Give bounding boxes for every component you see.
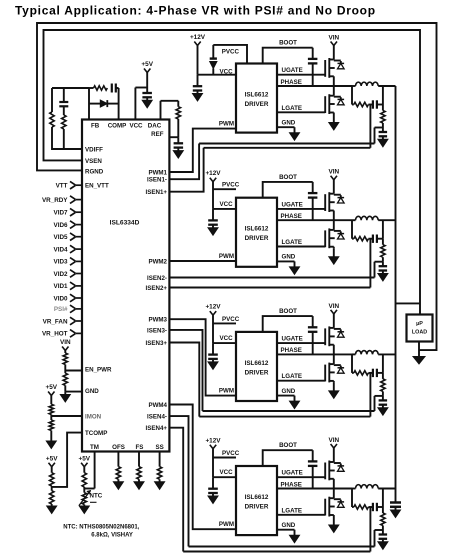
svg-text:VID6: VID6 [54, 222, 68, 229]
svg-text:+5V: +5V [79, 455, 91, 462]
svg-text:VSEN: VSEN [85, 158, 102, 165]
svg-text:+12V: +12V [205, 304, 221, 311]
svg-text:PWM: PWM [219, 388, 234, 395]
svg-text:VID4: VID4 [54, 246, 68, 253]
svg-text:GND: GND [85, 388, 99, 395]
svg-text:ISEN3-: ISEN3- [147, 327, 167, 334]
svg-text:DRIVER: DRIVER [245, 369, 269, 376]
svg-text:PWM: PWM [219, 121, 234, 128]
svg-text:LGATE: LGATE [282, 239, 303, 246]
svg-text:Typical Application: 4-Phase V: Typical Application: 4-Phase VR with PSI… [15, 4, 376, 18]
svg-text:VIN: VIN [328, 169, 339, 176]
svg-text:ISEN4-: ISEN4- [147, 413, 167, 420]
svg-text:LGATE: LGATE [282, 373, 303, 380]
svg-text:+12V: +12V [205, 437, 221, 444]
svg-text:NTC: NTC [90, 493, 103, 500]
svg-text:TM: TM [90, 444, 99, 451]
svg-text:VR_HOT: VR_HOT [42, 331, 68, 338]
svg-text:BOOT: BOOT [279, 308, 297, 315]
svg-text:VIN: VIN [328, 437, 339, 444]
svg-text:6.8kΩ, VISHAY: 6.8kΩ, VISHAY [91, 533, 133, 539]
svg-text:IMON: IMON [85, 414, 102, 421]
svg-text:VCC: VCC [220, 201, 234, 208]
svg-text:ISEN1+: ISEN1+ [146, 189, 168, 196]
svg-text:PHASE: PHASE [281, 347, 302, 354]
svg-text:ISEN2-: ISEN2- [147, 275, 167, 282]
svg-text:VR_RDY: VR_RDY [42, 197, 68, 204]
svg-text:+5V: +5V [46, 455, 58, 462]
svg-text:VIN: VIN [328, 303, 339, 310]
svg-text:PVCC: PVCC [222, 450, 240, 457]
svg-text:RGND: RGND [85, 169, 104, 176]
svg-text:VR_FAN: VR_FAN [43, 318, 68, 325]
svg-text:UGATE: UGATE [282, 470, 303, 477]
svg-text:ISEN1-: ISEN1- [147, 177, 167, 184]
svg-text:ISEN3+: ISEN3+ [146, 340, 168, 347]
svg-text:PVCC: PVCC [222, 49, 240, 56]
svg-text:PSI#: PSI# [54, 306, 68, 313]
svg-text:ISL6334D: ISL6334D [110, 220, 140, 227]
svg-text:VID3: VID3 [54, 259, 68, 266]
svg-text:PWM: PWM [219, 521, 234, 528]
svg-text:PVCC: PVCC [222, 316, 240, 323]
svg-text:+5V: +5V [141, 61, 153, 68]
svg-text:DRIVER: DRIVER [245, 504, 269, 511]
svg-text:PWM1: PWM1 [148, 169, 167, 176]
svg-text:LGATE: LGATE [282, 105, 303, 112]
svg-text:PHASE: PHASE [281, 79, 302, 86]
svg-text:ISL6612: ISL6612 [245, 226, 269, 233]
svg-text:VDIFF: VDIFF [85, 147, 103, 154]
svg-text:LOAD: LOAD [412, 330, 427, 336]
svg-text:COMP: COMP [108, 123, 127, 130]
svg-text:VCC: VCC [220, 68, 234, 75]
svg-text:ISL6612: ISL6612 [245, 92, 269, 99]
svg-text:ISEN2+: ISEN2+ [146, 285, 168, 292]
svg-text:UGATE: UGATE [282, 336, 303, 343]
svg-text:VTT: VTT [56, 183, 68, 190]
svg-text:+12V: +12V [190, 34, 206, 41]
svg-text:TCOMP: TCOMP [85, 430, 107, 437]
svg-text:PVCC: PVCC [222, 182, 240, 189]
svg-text:PHASE: PHASE [281, 481, 302, 488]
svg-text:+12V: +12V [205, 170, 221, 177]
svg-text:REF: REF [151, 131, 164, 138]
svg-text:PHASE: PHASE [281, 213, 302, 220]
svg-text:NTC: NTHS0805N02N6801,: NTC: NTHS0805N02N6801, [63, 525, 139, 531]
svg-text:FB: FB [91, 123, 100, 130]
svg-text:DAC: DAC [148, 123, 162, 130]
svg-text:BOOT: BOOT [279, 40, 297, 47]
svg-text:FS: FS [135, 444, 143, 451]
svg-text:PWM3: PWM3 [148, 317, 167, 324]
svg-text:+5V: +5V [46, 384, 58, 391]
svg-text:VID7: VID7 [54, 210, 68, 217]
svg-text:GND: GND [282, 388, 296, 395]
svg-text:PWM2: PWM2 [148, 258, 167, 265]
svg-text:VIN: VIN [60, 339, 71, 346]
svg-text:µP: µP [416, 321, 423, 327]
svg-text:ISL6612: ISL6612 [245, 360, 269, 367]
svg-text:DRIVER: DRIVER [245, 235, 269, 242]
svg-text:VCC: VCC [129, 123, 143, 130]
svg-text:ISEN4+: ISEN4+ [146, 425, 168, 432]
svg-text:VCC: VCC [220, 335, 234, 342]
svg-text:GND: GND [282, 522, 296, 529]
svg-text:EN_VTT: EN_VTT [85, 183, 109, 190]
svg-text:ISL6612: ISL6612 [245, 494, 269, 501]
svg-text:SS: SS [155, 444, 163, 451]
svg-text:PWM4: PWM4 [148, 402, 167, 409]
svg-text:BOOT: BOOT [279, 174, 297, 181]
svg-text:VID2: VID2 [54, 271, 68, 278]
svg-text:UGATE: UGATE [282, 201, 303, 208]
svg-text:BOOT: BOOT [279, 442, 297, 449]
svg-text:VIN: VIN [328, 35, 339, 42]
svg-text:VID5: VID5 [54, 234, 68, 241]
svg-text:GND: GND [282, 254, 296, 261]
svg-text:EN_PWR: EN_PWR [85, 367, 112, 374]
svg-text:UGATE: UGATE [282, 67, 303, 74]
svg-text:VID0: VID0 [54, 295, 68, 302]
svg-text:LGATE: LGATE [282, 507, 303, 514]
svg-text:VCC: VCC [220, 469, 234, 476]
svg-text:GND: GND [282, 119, 296, 126]
svg-text:OFS: OFS [112, 444, 125, 451]
svg-text:PWM: PWM [219, 253, 234, 260]
svg-text:DRIVER: DRIVER [245, 101, 269, 108]
svg-text:VID1: VID1 [54, 283, 68, 290]
